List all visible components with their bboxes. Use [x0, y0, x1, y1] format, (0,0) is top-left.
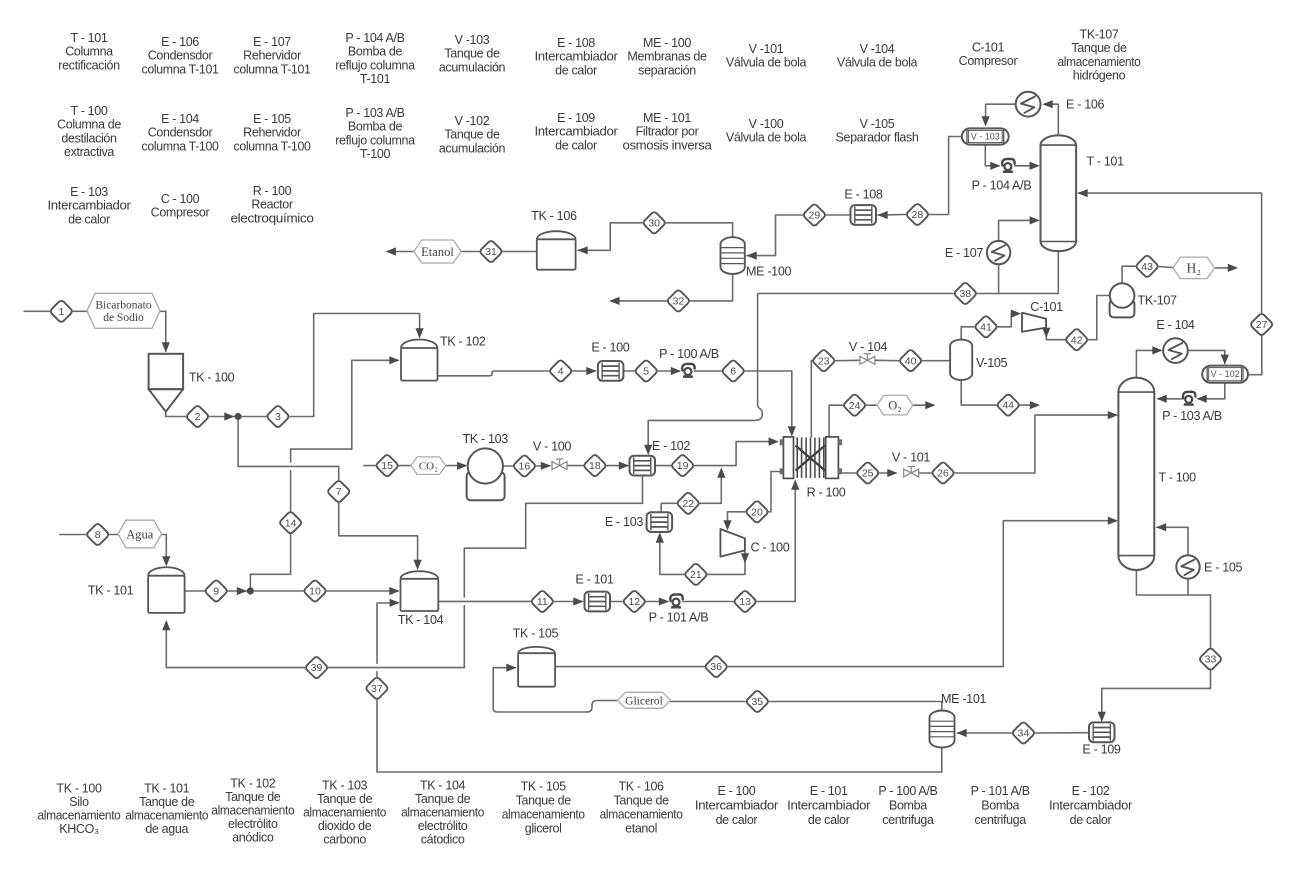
label E-108 — [844, 188, 882, 202]
svg-text:TK-107: TK-107 — [1138, 294, 1178, 308]
wire R-100 to stream 25 — [842, 472, 856, 474]
wire stream 30 to TK-106 — [578, 223, 643, 255]
accumulator V-103 — [962, 128, 1009, 144]
svg-text:TK-107: TK-107 — [1080, 28, 1119, 42]
wire stream 28 to E-108 — [878, 211, 906, 219]
svg-text:13: 13 — [739, 596, 751, 608]
legend P-104 — [335, 31, 415, 86]
svg-text:almacenamiento: almacenamiento — [125, 809, 208, 823]
svg-text:Tanque de: Tanque de — [1071, 41, 1127, 55]
svg-text:E - 101: E - 101 — [810, 784, 848, 798]
svg-text:36: 36 — [710, 661, 722, 673]
stream diamond 23 — [812, 349, 836, 373]
svg-text:15: 15 — [381, 460, 393, 472]
legend TK-106 — [600, 780, 683, 836]
svg-text:44: 44 — [1002, 400, 1014, 412]
wire stream 24 to O2 label — [866, 404, 877, 406]
label ME-101 — [941, 692, 986, 706]
compressor C-101 — [1022, 313, 1046, 332]
heat exchanger E-109 — [1089, 722, 1115, 742]
svg-text:T - 100: T - 100 — [71, 104, 108, 118]
wire stream 5 to P-100 — [658, 367, 681, 375]
wire stream 15 to CO2 label — [399, 465, 411, 467]
heat exchanger E-102 — [630, 456, 656, 476]
wire TK-103 to stream 16 — [503, 465, 513, 467]
legend E-101 — [787, 784, 870, 827]
svg-text:V -102: V -102 — [455, 114, 490, 128]
wire stream 23 to V-104 — [836, 359, 860, 361]
svg-text:10: 10 — [309, 586, 321, 598]
svg-text:de calor: de calor — [68, 212, 110, 226]
stream diamond 37 — [365, 676, 389, 700]
svg-text:Rehervidor: Rehervidor — [243, 126, 301, 140]
accumulator V-102 — [1202, 366, 1248, 383]
legend V-103 — [439, 33, 506, 74]
legend TK-102 — [211, 777, 294, 845]
label C-101 — [1030, 300, 1063, 314]
condenser E-106 — [1016, 92, 1041, 117]
svg-text:4: 4 — [558, 366, 564, 378]
wire Etanol label out — [386, 247, 414, 255]
svg-text:P - 101 A/B: P - 101 A/B — [649, 611, 709, 625]
label V-100 — [533, 440, 571, 454]
svg-text:almacenamiento: almacenamiento — [401, 806, 484, 820]
reboiler E-107 — [987, 241, 1010, 264]
svg-text:columna T-101: columna T-101 — [234, 62, 311, 76]
label TK-105 — [513, 627, 559, 641]
label Etanol — [414, 240, 461, 263]
legend E-105 — [234, 112, 311, 153]
wire stream 20 to C-100 — [723, 512, 745, 531]
wire node B to stream 14 to TK-102 — [250, 356, 399, 587]
wire TK-100 to stream 2 — [166, 412, 186, 417]
wire stream 37 to TK-104 side — [377, 599, 400, 677]
node A junction dot — [235, 413, 242, 420]
legend E-102 — [1049, 784, 1132, 827]
wire TK-106 to stream 31 — [503, 251, 537, 253]
svg-text:16: 16 — [519, 461, 531, 473]
stream diamond 36 — [704, 655, 728, 679]
stream diamond 14 — [279, 511, 303, 535]
wire V-102 to P-103 — [1197, 383, 1225, 403]
svg-text:TK - 105: TK - 105 — [513, 627, 559, 641]
svg-text:H₂: H₂ — [1186, 261, 1200, 276]
wire stream 16 to V-100 — [536, 462, 551, 470]
svg-text:Etanol: Etanol — [421, 245, 454, 259]
svg-text:P - 104 A/B: P - 104 A/B — [972, 179, 1032, 193]
wire node A to stream 3 — [241, 416, 266, 418]
stream diamond 27 — [1250, 313, 1274, 337]
svg-text:Tanque de: Tanque de — [444, 128, 500, 142]
svg-text:destilación: destilación — [61, 131, 117, 145]
svg-text:TK - 103: TK - 103 — [322, 779, 368, 793]
pump P-100 — [682, 364, 694, 378]
label TK-106 — [531, 209, 577, 223]
pump P-103 — [1183, 392, 1195, 406]
svg-text:E - 108: E - 108 — [557, 36, 595, 50]
tank TK-103 — [467, 448, 505, 500]
svg-text:V - 101: V - 101 — [892, 451, 930, 465]
svg-text:5: 5 — [643, 366, 649, 378]
svg-text:almacenamiento: almacenamiento — [1058, 55, 1141, 69]
wire stream 9 to node B — [228, 587, 248, 595]
svg-text:Tanque de: Tanque de — [225, 790, 281, 804]
wire stream 10 to TK-104 — [327, 587, 400, 595]
svg-text:E - 101: E - 101 — [575, 573, 613, 587]
svg-text:Bomba: Bomba — [889, 798, 927, 812]
pump P-104 — [1002, 159, 1014, 173]
svg-text:Tanque de: Tanque de — [444, 47, 500, 61]
svg-text:Intercambiador: Intercambiador — [695, 798, 778, 812]
svg-text:TK - 101: TK - 101 — [144, 782, 190, 796]
reactor R-100 — [780, 437, 842, 479]
svg-text:de calor: de calor — [555, 138, 597, 152]
svg-text:TK - 101: TK - 101 — [88, 584, 134, 598]
svg-text:rectificación: rectificación — [58, 58, 120, 72]
svg-text:extractiva: extractiva — [64, 145, 114, 159]
svg-text:acumulación: acumulación — [439, 141, 506, 155]
svg-text:ME -100: ME -100 — [746, 265, 791, 279]
label E-105 — [1204, 561, 1242, 575]
wire C-101 to stream 42 — [1042, 328, 1065, 340]
label E-103 — [605, 515, 643, 529]
label E-104 — [1156, 318, 1194, 332]
svg-text:CO₂: CO₂ — [419, 461, 438, 473]
legend E-109 — [535, 111, 618, 152]
stream diamond 34 — [1012, 721, 1036, 745]
svg-text:V -103: V -103 — [455, 33, 490, 47]
legend T-100 — [57, 104, 121, 159]
svg-text:Reactor: Reactor — [251, 198, 293, 212]
svg-text:Intercambiador: Intercambiador — [1049, 798, 1132, 812]
svg-text:E - 100: E - 100 — [591, 340, 629, 354]
wire stream 6 to R-100 top — [745, 371, 796, 437]
label Bicarbonato de Sodio — [87, 293, 160, 328]
stream diamond 31 — [479, 240, 503, 264]
wire O2 label out — [913, 401, 936, 409]
svg-text:22: 22 — [682, 498, 694, 510]
legend P-100 — [878, 784, 937, 827]
wire stream 35 to Glicerol label — [671, 701, 746, 703]
svg-text:T - 101: T - 101 — [71, 31, 108, 45]
svg-text:20: 20 — [751, 506, 763, 518]
wire stream 42 to TK-107 — [1088, 296, 1109, 340]
wire stream 43 to H2 label — [1159, 267, 1173, 268]
wire stream 11 to E-101 — [554, 597, 583, 605]
svg-text:KHCO₃: KHCO₃ — [59, 822, 99, 836]
wire CO2 label to TK-103 — [446, 462, 467, 470]
svg-text:C - 100: C - 100 — [751, 541, 790, 555]
stream diamond 44 — [996, 393, 1020, 417]
wire stream 34 to ME-101 — [957, 729, 1012, 737]
wire ME-101 top to stream 35 — [769, 702, 942, 711]
svg-text:38: 38 — [959, 288, 971, 300]
label P-100 — [659, 347, 719, 361]
svg-text:T-101: T-101 — [360, 72, 391, 86]
wire Glicerol label to TK-105 — [493, 664, 617, 712]
svg-text:Rehervidor: Rehervidor — [243, 49, 301, 63]
svg-text:de calor: de calor — [1070, 813, 1112, 827]
label P-104 — [972, 179, 1032, 193]
label E-100 — [591, 340, 629, 354]
svg-text:almacenamiento: almacenamiento — [600, 808, 683, 822]
svg-text:32: 32 — [673, 296, 685, 308]
wire R-100 to stream 24 — [829, 405, 843, 437]
wire V-105 bottom to stream 44 — [961, 381, 996, 406]
wire stream 3 to TK-102 top — [290, 314, 424, 417]
wire node B to stream 10 — [254, 590, 304, 592]
stream diamond 41 — [974, 315, 998, 339]
svg-text:V - 102: V - 102 — [1211, 369, 1240, 379]
svg-text:Silo: Silo — [69, 795, 89, 809]
svg-text:P - 100 A/B: P - 100 A/B — [659, 347, 719, 361]
svg-text:19: 19 — [677, 460, 689, 472]
wire TK-102 to stream 4 — [438, 371, 549, 376]
svg-text:E - 106: E - 106 — [161, 35, 199, 49]
svg-text:reflujo columna: reflujo columna — [335, 58, 415, 72]
wire E-107 reboiler bottom tap — [998, 264, 1000, 293]
legend TK-107 — [1058, 28, 1141, 83]
label E-102 — [652, 439, 690, 453]
stream diamond 28 — [906, 203, 930, 227]
legend P-103 — [335, 106, 415, 161]
svg-text:de agua: de agua — [145, 822, 188, 836]
svg-text:columna T-101: columna T-101 — [142, 62, 219, 76]
svg-text:reflujo columna: reflujo columna — [335, 133, 415, 147]
wire V-102 to stream 27 to T-101 — [1078, 189, 1262, 375]
svg-text:E - 106: E - 106 — [1066, 98, 1104, 112]
wire stream 2 to node A — [209, 412, 236, 420]
svg-text:18: 18 — [589, 460, 601, 472]
svg-text:E - 107: E - 107 — [253, 35, 291, 49]
label C-100 — [751, 541, 790, 555]
legend T-101 — [58, 31, 120, 72]
stream diamond 11 — [530, 590, 554, 614]
legend TK-100 — [38, 782, 121, 837]
svg-text:E - 109: E - 109 — [557, 111, 595, 125]
svg-text:Intercambiador: Intercambiador — [535, 125, 618, 139]
stream diamond 42 — [1065, 328, 1089, 352]
wire V-104 to stream 40 — [875, 359, 899, 361]
wire stream 7 to TK-104 top — [339, 503, 422, 570]
tank TK-101 — [148, 567, 185, 613]
legend E-100 — [695, 784, 778, 827]
svg-text:E - 107: E - 107 — [945, 246, 983, 260]
svg-text:TK - 106: TK - 106 — [619, 780, 665, 794]
svg-text:41: 41 — [980, 321, 992, 333]
wire P-104 to T-101 — [1015, 162, 1040, 170]
column T-100 — [1118, 378, 1154, 570]
silo TK-100 — [149, 354, 184, 412]
svg-text:1: 1 — [58, 306, 64, 318]
legend E-104 — [142, 112, 219, 153]
svg-text:25: 25 — [862, 468, 874, 480]
svg-text:3: 3 — [275, 411, 281, 423]
wire stream 41 to C-101 — [998, 310, 1021, 327]
svg-text:E - 102: E - 102 — [652, 439, 690, 453]
wire stream 1 to label — [73, 310, 87, 312]
svg-text:29: 29 — [809, 210, 821, 222]
wire feed to stream 8 — [60, 534, 86, 536]
wire V-100 to stream 18 — [567, 465, 583, 467]
svg-text:C-101: C-101 — [1030, 300, 1063, 314]
svg-text:electroquímico: electroquímico — [231, 211, 314, 225]
svg-text:43: 43 — [1141, 261, 1153, 273]
tank TK-105 — [518, 647, 555, 687]
svg-text:26: 26 — [937, 468, 949, 480]
label E-109 — [1082, 743, 1120, 757]
wire stream 36 to T-100 lower feed — [728, 517, 1118, 667]
svg-text:P - 104 A/B: P - 104 A/B — [345, 31, 404, 45]
svg-text:14: 14 — [285, 517, 297, 529]
svg-text:Tanque de: Tanque de — [516, 794, 572, 808]
svg-text:Condensdor: Condensdor — [148, 49, 213, 63]
wire TK-107 to stream 43 — [1122, 266, 1135, 283]
legend ME-100 — [627, 36, 707, 77]
wire T-100 top to E-104 — [1136, 346, 1162, 377]
svg-text:V -105: V -105 — [860, 117, 895, 131]
svg-text:Bomba de: Bomba de — [348, 45, 403, 59]
svg-text:almacenamiento: almacenamiento — [502, 808, 585, 822]
svg-text:21: 21 — [690, 569, 702, 581]
label V-104 — [849, 340, 887, 354]
stream diamond 26 — [931, 461, 955, 485]
stream diamond 2 — [186, 405, 210, 429]
svg-text:almacenamiento: almacenamiento — [38, 809, 121, 823]
stream diamond 38 — [953, 282, 977, 306]
svg-text:Intercambiador: Intercambiador — [48, 199, 131, 213]
wire stream 4 to E-100 — [573, 367, 597, 375]
legend TK-101 — [125, 782, 208, 837]
svg-text:TK - 102: TK - 102 — [230, 777, 276, 791]
svg-text:Tanque de: Tanque de — [415, 792, 471, 806]
wire stream 18 to E-102 — [607, 462, 629, 470]
wire ME-100 bottom to stream 32 — [690, 275, 732, 301]
wire node A to stream 7 — [238, 420, 339, 480]
stream diamond 29 — [803, 203, 827, 227]
svg-text:P - 101 A/B: P - 101 A/B — [971, 784, 1030, 798]
label P-103 — [1162, 409, 1222, 423]
svg-text:Compresor: Compresor — [959, 54, 1018, 68]
label O2 — [877, 395, 913, 415]
svg-text:C - 100: C - 100 — [161, 192, 200, 206]
stream diamond 24 — [843, 393, 867, 417]
legend E-106 — [142, 35, 219, 76]
stream diamond 33 — [1199, 647, 1223, 671]
svg-text:Bicarbonato: Bicarbonato — [95, 300, 151, 312]
svg-text:V -104: V -104 — [860, 42, 895, 56]
svg-text:de calor: de calor — [716, 813, 758, 827]
stream diamond 8 — [86, 523, 110, 547]
legend V-100 — [726, 117, 807, 145]
svg-text:TK - 100: TK - 100 — [56, 782, 102, 796]
svg-text:T-100: T-100 — [360, 147, 391, 161]
stream diamond 9 — [204, 579, 228, 603]
wire T-101 bottom to stream 38 to E-102 — [644, 251, 1058, 455]
wire stream 25 to V-101 — [880, 469, 898, 477]
svg-text:E - 105: E - 105 — [1204, 561, 1242, 575]
wire label to TK-100 — [160, 311, 170, 352]
svg-text:ME -101: ME -101 — [941, 692, 986, 706]
legend V-101 — [726, 42, 807, 70]
label E-106 — [1066, 98, 1104, 112]
wire E-107 to T-101 — [999, 216, 1040, 241]
legend E-103 — [48, 185, 131, 226]
membrane unit ME-100 — [721, 237, 745, 274]
svg-text:23: 23 — [818, 355, 830, 367]
wire ME-101 bottom to stream 37 — [377, 700, 942, 772]
wire stream 12 to P-101 — [646, 597, 669, 605]
svg-text:11: 11 — [537, 596, 548, 608]
wire E-101 to stream 12 — [610, 601, 623, 603]
svg-text:E - 103: E - 103 — [70, 185, 108, 199]
label R-100 — [807, 486, 846, 500]
svg-text:E - 109: E - 109 — [1082, 743, 1120, 757]
membrane unit ME-101 — [930, 711, 955, 748]
svg-text:P - 103 A/B: P - 103 A/B — [1162, 409, 1222, 423]
wire stream 44 out — [1020, 401, 1040, 409]
legend TK-105 — [502, 780, 585, 836]
svg-text:almacenamiento: almacenamiento — [303, 806, 386, 820]
wire V-105 top to stream 41 — [961, 327, 974, 339]
stream diamond 3 — [266, 405, 290, 429]
wire stream 32 out — [609, 297, 666, 305]
wire stream 19 to R-100 left port — [694, 438, 778, 466]
svg-text:33: 33 — [1205, 654, 1217, 666]
wire E-109 to stream 34 — [1035, 732, 1089, 734]
svg-text:centrifuga: centrifuga — [974, 813, 1026, 827]
stream diamond 21 — [684, 563, 708, 587]
svg-text:7: 7 — [336, 486, 342, 498]
svg-text:almacenamiento: almacenamiento — [211, 804, 294, 818]
stream diamond 4 — [549, 359, 573, 383]
svg-text:E - 104: E - 104 — [161, 112, 199, 126]
valve V-100 — [552, 459, 567, 470]
svg-text:ME - 101: ME - 101 — [643, 111, 691, 125]
svg-text:TK - 105: TK - 105 — [521, 780, 567, 794]
svg-text:cátodico: cátodico — [421, 833, 465, 847]
svg-text:6: 6 — [730, 366, 736, 378]
svg-text:31: 31 — [485, 246, 497, 258]
svg-text:V - 100: V - 100 — [533, 440, 571, 454]
tank TK-102 — [401, 339, 438, 380]
svg-text:de Sodio: de Sodio — [103, 312, 144, 324]
heat exchanger E-100 — [598, 361, 624, 381]
stream diamond 32 — [667, 289, 691, 313]
wire E-105 to T-100 — [1156, 523, 1188, 555]
wire H2 label out — [1214, 264, 1238, 272]
svg-text:E - 105: E - 105 — [253, 112, 291, 126]
wire stream 21 to E-103 — [656, 533, 684, 575]
svg-text:anódico: anódico — [232, 831, 274, 845]
svg-text:electrólito: electrólito — [418, 819, 468, 833]
svg-text:27: 27 — [1256, 319, 1268, 331]
wire E-106 to V-103 — [982, 104, 1016, 126]
svg-text:R - 100: R - 100 — [807, 486, 846, 500]
legend C-100 — [151, 192, 210, 220]
wire E-102 bottom to stream 39 to TK-101 — [162, 476, 642, 668]
wire R-100 port to stream 20 — [769, 472, 780, 512]
label V-105 — [976, 356, 1008, 370]
svg-text:E - 104: E - 104 — [1156, 318, 1194, 332]
label CO2 — [411, 457, 446, 475]
wire C-100 to stream 21 — [708, 551, 749, 575]
stream diamond 15 — [375, 454, 399, 478]
legend E-108 — [535, 36, 618, 77]
svg-text:TK - 104: TK - 104 — [420, 779, 466, 793]
svg-text:Separador flash: Separador flash — [835, 131, 918, 145]
wire R-100 to stream 23 — [810, 361, 813, 437]
